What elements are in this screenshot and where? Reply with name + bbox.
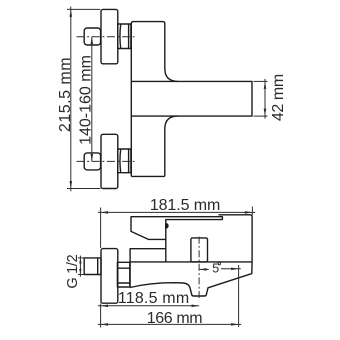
svg-text:166 mm: 166 mm	[147, 310, 202, 327]
svg-text:118.5 mm: 118.5 mm	[118, 290, 190, 307]
diverter knob	[191, 238, 208, 262]
dimension 181.5 mm	[98, 207, 255, 249]
knob / aerator centerline	[198, 237, 200, 301]
bottom mounting nut	[118, 149, 131, 173]
svg-text:181.5 mm: 181.5 mm	[150, 197, 220, 214]
body underside line	[130, 261, 252, 263]
lever set-screw	[166, 224, 168, 228]
bottom eccentric connector	[84, 153, 100, 170]
spout underside with aerator	[130, 262, 252, 296]
dimension 5 degrees	[199, 265, 241, 327]
dimension 166 mm	[98, 323, 241, 325]
svg-text:G 1/2: G 1/2	[65, 254, 81, 288]
svg-text:215.5 mm: 215.5 mm	[57, 57, 74, 132]
top eccentric connector	[84, 28, 100, 45]
handle lever	[131, 217, 222, 240]
dimension 42 mm	[254, 79, 268, 119]
dimension 140-160 mm	[91, 37, 93, 162]
dimension G 1/2	[78, 256, 84, 277]
svg-text:140-160 mm: 140-160 mm	[78, 55, 95, 145]
body step / top of body at left	[130, 249, 166, 288]
G 1/2 supply pipe	[84, 258, 101, 275]
supply nut (side view)	[117, 262, 129, 287]
faucet body (front view)	[131, 22, 178, 177]
wall plate (side view)	[101, 249, 118, 304]
dimension 118.5 mm	[98, 303, 199, 327]
centerline through bottom eccentric	[77, 160, 135, 162]
top mounting nut	[118, 24, 131, 49]
bottom wall escutcheon (front view)	[101, 134, 118, 188]
top wall escutcheon (front view)	[101, 9, 118, 63]
body top edge (side view)	[219, 215, 253, 262]
centerline through top eccentric	[77, 36, 135, 38]
svg-text:42 mm: 42 mm	[270, 74, 287, 121]
cartridge housing front edge	[165, 239, 167, 262]
dimension 215.5 mm	[67, 7, 100, 192]
spout (front view)	[131, 81, 252, 116]
